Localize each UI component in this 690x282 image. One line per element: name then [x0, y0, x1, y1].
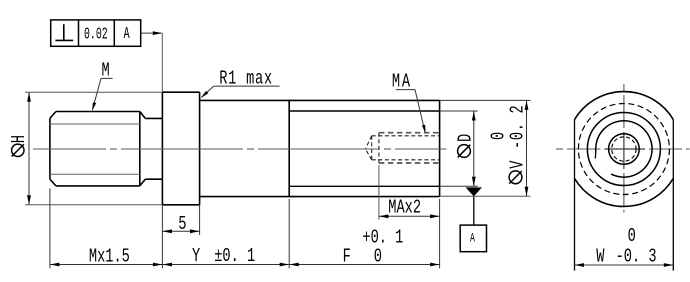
svg-text:Mx1.5: Mx1.5: [89, 246, 130, 268]
svg-text:Y: Y: [192, 246, 200, 268]
svg-text:D: D: [456, 134, 478, 142]
svg-text:F: F: [343, 246, 351, 268]
svg-text:+0. 1: +0. 1: [362, 227, 403, 249]
svg-text:A: A: [470, 232, 475, 246]
svg-text:M: M: [102, 60, 110, 82]
svg-text:0: 0: [489, 132, 511, 140]
svg-text:-0. 3: -0. 3: [616, 246, 657, 268]
svg-text:0.02: 0.02: [84, 26, 108, 44]
svg-text:MAx2: MAx2: [388, 198, 421, 220]
svg-text:MA: MA: [392, 72, 412, 94]
svg-text:0: 0: [628, 226, 636, 248]
svg-text:V: V: [507, 160, 529, 169]
svg-text:0: 0: [374, 246, 382, 268]
svg-text:W: W: [596, 246, 605, 268]
svg-text:H: H: [9, 135, 31, 143]
svg-text:R1 max: R1 max: [219, 68, 273, 90]
svg-text:±0. 1: ±0. 1: [214, 246, 255, 268]
svg-text:A: A: [124, 26, 131, 44]
svg-text:-0. 2: -0. 2: [507, 105, 529, 149]
svg-text:5: 5: [178, 214, 186, 236]
